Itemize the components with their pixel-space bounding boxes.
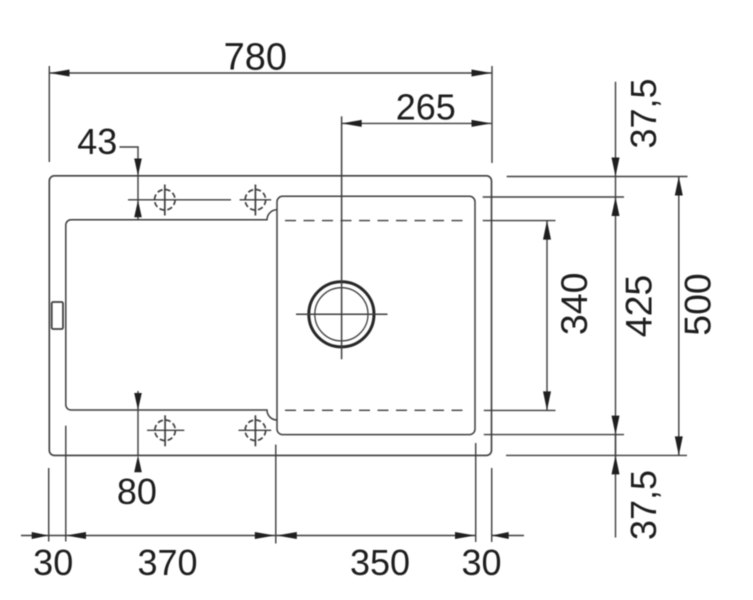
- bottom ext divider: [275, 445, 277, 544]
- bottom ext outer-right: [491, 468, 493, 542]
- svg-text:425: 425: [617, 275, 659, 338]
- arrow 265 left: [342, 120, 362, 127]
- right extension 340-top: [483, 220, 556, 222]
- arrow 780 left: [50, 70, 70, 77]
- arrow 425 down: [612, 416, 620, 435]
- arrow 340 up: [543, 221, 551, 240]
- svg-text:37,5: 37,5: [623, 470, 664, 540]
- arrow 500 down: [675, 436, 683, 455]
- tap hole top-right: [245, 190, 266, 211]
- arrow 80 up: [134, 455, 142, 472]
- tap hole bottom-right: [245, 420, 266, 441]
- dim 37.5 top line + dim 425 line (continuous): [615, 82, 617, 456]
- arrow 340 down: [543, 391, 551, 410]
- bottom ext bowl-right: [475, 443, 477, 542]
- bottom ext drainboard-left: [65, 426, 67, 542]
- arrow 37.5 top down: [612, 158, 620, 177]
- dim 780 extension right: [491, 66, 493, 163]
- svg-text:43: 43: [77, 121, 117, 162]
- right extension outer-bottom: [506, 454, 687, 456]
- right extension 340-bottom: [484, 409, 556, 411]
- svg-text:780: 780: [224, 36, 287, 78]
- overflow slot: [52, 302, 63, 329]
- arrow 425 up: [612, 197, 620, 216]
- arrow 350 left: [277, 532, 297, 539]
- drain vertical centerline: [341, 116, 343, 359]
- svg-text:265: 265: [396, 87, 456, 128]
- bottom dim line: [21, 535, 475, 537]
- right extension bowl-bottom: [484, 434, 624, 436]
- dim 80 line: [137, 391, 139, 455]
- tap hole bottom-left: [155, 420, 176, 441]
- arrow 30R left: [492, 532, 509, 539]
- arrow 30L right: [32, 532, 49, 539]
- dim 37.5 bottom line: [615, 435, 617, 538]
- arrow 370 right: [255, 532, 275, 539]
- drainboard ledge outline: [66, 210, 277, 420]
- svg-text:500: 500: [676, 273, 718, 336]
- drain horizontal centerline: [296, 313, 388, 315]
- arrow 500 up: [675, 177, 683, 196]
- right extension outer-top: [507, 176, 688, 178]
- svg-text:30: 30: [33, 542, 73, 583]
- arrow 350 right: [455, 532, 475, 539]
- arrow 370 left: [66, 532, 86, 539]
- arrow 80 down: [134, 393, 142, 410]
- dim 340 line: [546, 221, 548, 411]
- svg-text:30: 30: [461, 542, 501, 583]
- dim 780 line: [50, 72, 492, 74]
- drain outer circle: [309, 282, 374, 347]
- svg-text:80: 80: [117, 471, 157, 512]
- tap hole top-left: [155, 190, 176, 211]
- bowl inner dashed line top: [285, 220, 469, 222]
- tap hole top-left centerline: [128, 199, 231, 201]
- arrow 43 down: [134, 159, 142, 176]
- arrow 37.5 bottom up: [612, 455, 620, 474]
- svg-text:340: 340: [553, 273, 595, 336]
- bowl: [277, 196, 475, 434]
- outer sink body: [49, 176, 491, 456]
- arrow 265 right: [472, 120, 492, 127]
- arrow 780 right: [472, 70, 492, 77]
- dim 43 line: [137, 147, 139, 220]
- dim 265 line: [342, 122, 492, 124]
- dim 43 leader: [120, 146, 139, 148]
- dim 500 line: [678, 177, 680, 456]
- dim 780 extension left: [48, 66, 50, 162]
- right extension bowl-top: [483, 196, 624, 198]
- drain inner circle: [315, 288, 368, 341]
- svg-text:37,5: 37,5: [623, 78, 664, 148]
- svg-text:350: 350: [350, 542, 410, 583]
- svg-text:370: 370: [137, 542, 197, 583]
- bowl inner dashed line bottom: [285, 409, 469, 411]
- arrow 43 up: [134, 200, 142, 217]
- bottom ext outer-left: [48, 468, 50, 542]
